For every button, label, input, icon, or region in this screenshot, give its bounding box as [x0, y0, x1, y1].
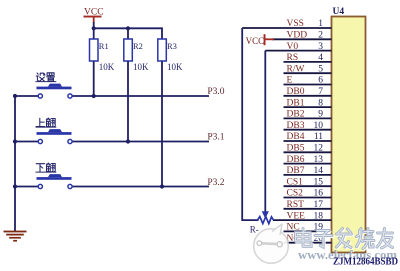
svg-text:VEE: VEE	[287, 211, 306, 221]
node junction VCC-R1	[92, 26, 96, 30]
wire V0 stem	[264, 51, 266, 212]
ground	[4, 231, 27, 242]
switch terminal left	[38, 139, 42, 143]
svg-text:DB7: DB7	[287, 166, 305, 176]
node rail junction	[13, 94, 17, 98]
svg-text:R-: R-	[250, 224, 259, 234]
svg-text:16: 16	[314, 189, 324, 199]
svg-text:6: 6	[318, 76, 323, 86]
power VCC at VDD	[246, 34, 274, 46]
node junction R2	[126, 26, 130, 30]
pin 10 DB3	[284, 121, 332, 131]
wire R3 bottom	[161, 61, 163, 187]
svg-text:CS1: CS1	[287, 177, 304, 187]
label xiafan (page down)	[36, 163, 55, 172]
svg-text:9: 9	[318, 110, 323, 120]
wire row right segment	[72, 141, 209, 143]
svg-text:R/W: R/W	[287, 64, 305, 74]
watermark text dianzifashaoyou	[297, 230, 313, 248]
svg-text:17: 17	[314, 200, 324, 210]
switch terminal right	[68, 94, 72, 98]
pin 6 E	[284, 76, 332, 86]
svg-text:P3.0: P3.0	[207, 87, 224, 97]
svg-text:VDD: VDD	[287, 31, 308, 41]
svg-text:8: 8	[318, 98, 323, 108]
pin 4 RS	[284, 53, 332, 63]
svg-text:VCC: VCC	[246, 36, 265, 46]
svg-text:10K: 10K	[167, 62, 183, 72]
switch terminal left	[38, 94, 42, 98]
pin 12 DB5	[284, 144, 332, 154]
watermark logo circle	[254, 224, 289, 263]
pin 8 DB1	[284, 98, 332, 108]
pin 1 VSS	[242, 19, 331, 29]
svg-text:12: 12	[314, 144, 324, 154]
pin 15 CS1	[284, 177, 332, 187]
pin 13 DB6	[284, 155, 332, 165]
switch terminal left	[38, 184, 42, 188]
wire row right segment	[72, 186, 209, 188]
switch cap	[37, 87, 72, 90]
pin 20 NC	[284, 234, 332, 244]
label shangfan (page up)	[36, 118, 55, 127]
svg-text:R1: R1	[99, 41, 109, 51]
svg-text:4: 4	[318, 53, 323, 63]
svg-text:14: 14	[314, 166, 324, 176]
svg-text:5: 5	[318, 64, 323, 74]
svg-text:1: 1	[318, 19, 323, 29]
svg-text:11: 11	[314, 132, 323, 142]
pin 9 DB2	[284, 110, 332, 120]
pin 19 NC	[284, 223, 332, 233]
node junction R3 row3	[160, 184, 164, 188]
wire VCC stem	[93, 22, 95, 40]
switch terminal right	[68, 184, 72, 188]
pin 7 DB0	[284, 87, 332, 97]
svg-text:ZJM12864BSBD: ZJM12864BSBD	[333, 257, 398, 268]
wire row left segment	[15, 141, 38, 143]
pin 3 V0	[265, 42, 331, 52]
wire VSS rail	[242, 28, 258, 220]
resistor R2	[124, 39, 149, 72]
svg-text:R2: R2	[133, 41, 143, 51]
pin 11 DB4	[284, 132, 332, 142]
wire row left segment	[15, 186, 38, 188]
potentiometer arrow	[262, 211, 269, 218]
svg-text:V0: V0	[287, 42, 299, 52]
wire R1 bottom	[93, 61, 95, 96]
svg-text:DB3: DB3	[287, 121, 305, 131]
svg-text:CS2: CS2	[287, 189, 304, 199]
svg-text:DB1: DB1	[287, 98, 305, 108]
pin 2 VDD	[272, 31, 332, 41]
pin 17 RST	[284, 200, 332, 210]
node junction R1 row1	[92, 94, 96, 98]
wire top bus	[94, 28, 162, 39]
svg-text:2: 2	[318, 31, 323, 41]
wire left rail	[14, 96, 16, 232]
svg-text:7: 7	[318, 87, 323, 97]
pin 14 DB7	[284, 166, 332, 176]
svg-text:DB4: DB4	[287, 132, 305, 142]
switch cap	[37, 177, 72, 180]
svg-text:13: 13	[314, 155, 324, 165]
potentiometer zigzag	[258, 217, 274, 224]
pin 16 CS2	[284, 189, 332, 199]
svg-text:DB2: DB2	[287, 110, 305, 120]
svg-text:U4: U4	[333, 7, 345, 17]
svg-text:DB5: DB5	[287, 144, 305, 154]
svg-text:VSS: VSS	[287, 19, 304, 29]
node junction R2 row2	[126, 139, 130, 143]
wire R2 top stem	[127, 28, 129, 39]
node rail junction	[13, 184, 17, 188]
svg-text:18: 18	[314, 211, 324, 221]
wire R2 bottom	[127, 61, 129, 142]
svg-text:3: 3	[318, 42, 323, 52]
svg-text:DB6: DB6	[287, 155, 305, 165]
svg-text:10K: 10K	[133, 62, 149, 72]
svg-text:RS: RS	[287, 53, 299, 63]
svg-text:P3.1: P3.1	[207, 132, 224, 142]
svg-text:10K: 10K	[99, 62, 115, 72]
switch cap	[37, 132, 72, 135]
wire row right segment	[72, 95, 209, 97]
svg-text:RST: RST	[287, 200, 305, 210]
pin 5 R/W	[284, 64, 332, 74]
svg-text:P3.2: P3.2	[207, 178, 224, 188]
resistor R3	[158, 39, 183, 72]
pin 18 VEE	[273, 211, 332, 221]
power VCC top	[84, 8, 104, 23]
resistor R1	[90, 39, 115, 72]
node rail junction	[13, 139, 17, 143]
switch terminal right	[68, 139, 72, 143]
wire row left segment	[15, 95, 38, 97]
label shezhi (set)	[36, 73, 54, 81]
svg-text:E: E	[287, 76, 293, 86]
svg-text:15: 15	[314, 177, 324, 187]
svg-text:10: 10	[314, 121, 324, 131]
IC body U4	[332, 17, 366, 253]
svg-text:DB0: DB0	[287, 87, 305, 97]
svg-text:R3: R3	[167, 41, 177, 51]
